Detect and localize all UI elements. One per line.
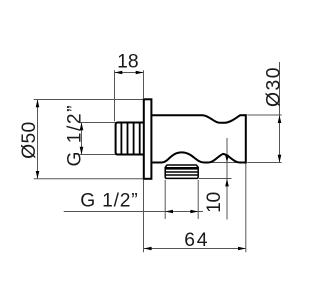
arrow G12-left up: [80, 123, 84, 131]
arrow G12-left down: [80, 147, 84, 155]
thread line 1: [120, 123, 122, 155]
dim 64 dimension line: [144, 248, 246, 250]
dim 10 extension line nut bottom: [199, 178, 232, 180]
nut thread line 2: [165, 171, 198, 173]
arrow 18 right: [136, 71, 144, 75]
holder body outline: [151, 115, 245, 162]
nut thread band thick: [165, 167, 198, 170]
dim 18 dimension line: [115, 72, 144, 74]
svg-text:Ø50: Ø50: [19, 122, 40, 159]
svg-text:10: 10: [204, 192, 225, 213]
wall plate: [144, 99, 152, 179]
dim D50 dimension line: [37, 100, 39, 179]
hose nut G 1/2: [165, 165, 198, 178]
dim G12 bottom extension line right: [197, 180, 199, 219]
arrowheads: [36, 71, 282, 251]
thread line 2: [127, 123, 129, 155]
arrow D30 up: [278, 115, 282, 123]
dim 64 extension line left: [143, 180, 145, 252]
dim 10 dimension line: [226, 138, 228, 220]
arrow nut-dim left: [165, 210, 173, 214]
dim G12 left extension line bottom: [79, 154, 115, 156]
dim D30 dimension line: [279, 62, 281, 163]
svg-text:Ø30: Ø30: [263, 67, 284, 107]
svg-text:64: 64: [184, 230, 207, 251]
dim D50 extension line top: [34, 99, 144, 101]
thread line 3: [133, 123, 135, 155]
dim G12 left extension line top: [79, 122, 115, 124]
arrow 10 up (bottom): [225, 179, 229, 187]
arrow nut-dim right: [190, 210, 198, 214]
arrow 64 right: [238, 247, 246, 251]
dim G12 left dimension line: [81, 123, 83, 155]
dim D30 extension line top: [247, 114, 281, 116]
arrow D30 down: [278, 155, 282, 163]
body profile: top with waist dip, right end, bottom with two humps: [151, 115, 245, 162]
arrow 64 left: [144, 247, 152, 251]
arrow D50 up: [36, 100, 40, 108]
dim D50 extension line bottom: [34, 178, 144, 180]
svg-text:G 1/2”: G 1/2”: [80, 191, 138, 212]
dim 64 extension line right: [245, 164, 247, 253]
threaded connector G 1/2: [116, 123, 144, 155]
dim 18 extension line right: [143, 70, 145, 98]
dim G12 bottom leader line: [64, 211, 203, 213]
arrow D50 down: [36, 171, 40, 179]
dim 10 reference line at body bottom level: [203, 162, 240, 164]
arrow 18 left: [115, 71, 123, 75]
dim D30 extension line bottom: [247, 162, 281, 164]
arrow 10 down (top): [225, 155, 229, 163]
thread line 4: [139, 123, 141, 155]
nut thread line 3: [165, 174, 198, 176]
svg-text:G 1/2”: G 1/2”: [64, 106, 85, 167]
dim G12 bottom extension line left: [164, 180, 166, 219]
dim 18 extension line left: [114, 70, 116, 121]
svg-text:18: 18: [117, 51, 138, 72]
